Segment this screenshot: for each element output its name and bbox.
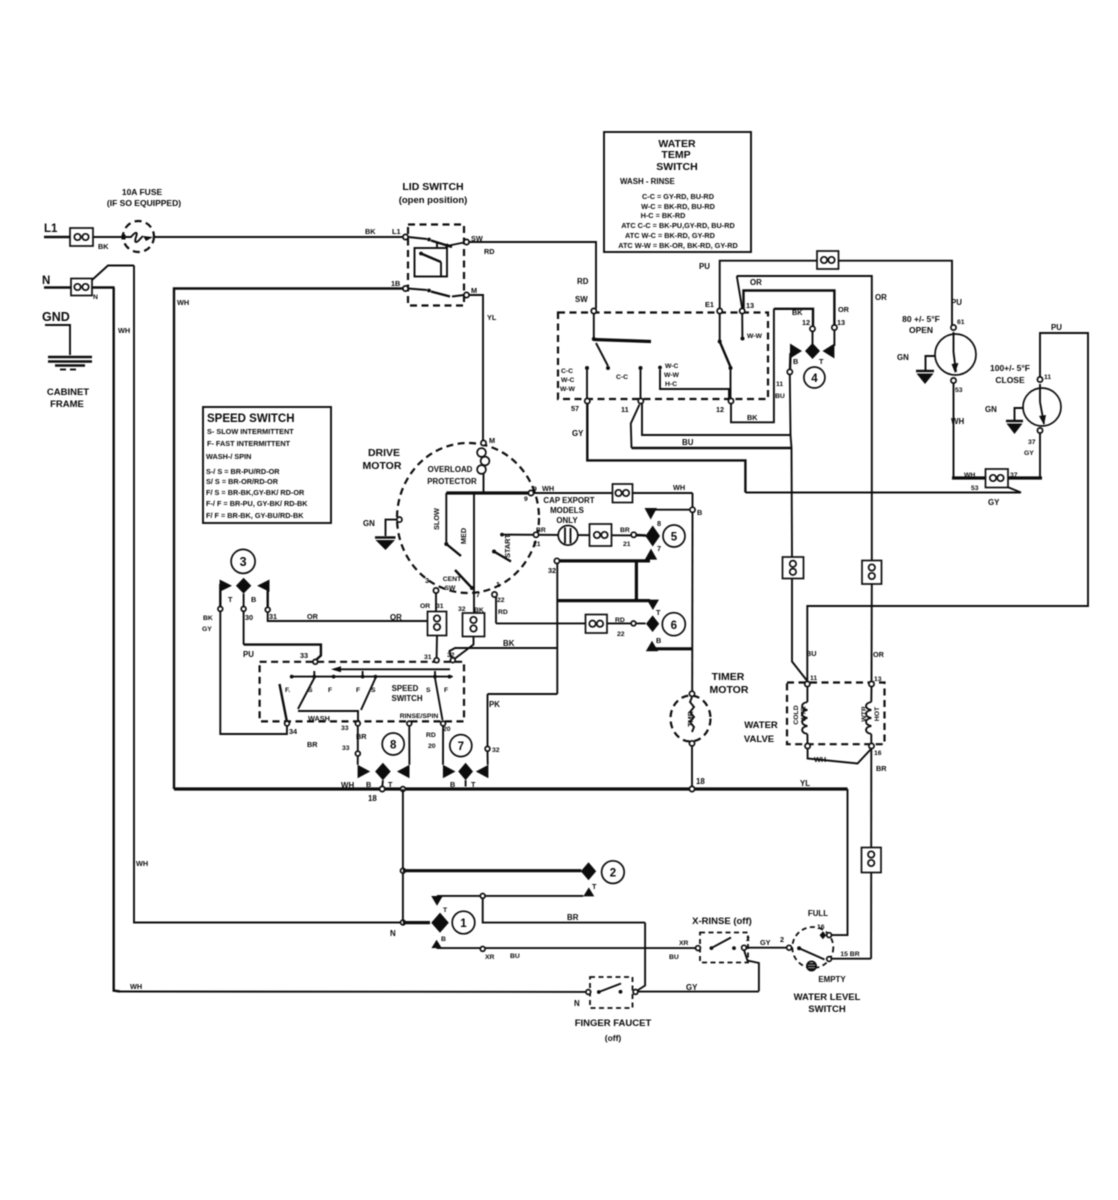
- svg-text:53: 53: [955, 387, 963, 394]
- svg-text:GY: GY: [988, 498, 1000, 507]
- x-rinse switch (dashed box): [700, 933, 748, 963]
- node 7 circle: [450, 735, 472, 757]
- svg-text:7: 7: [476, 590, 480, 599]
- svg-text:ATC C-C = BK-PU,GY-RD, BU-RD: ATC C-C = BK-PU,GY-RD, BU-RD: [621, 221, 735, 230]
- svg-text:9: 9: [524, 496, 528, 503]
- wire diag to terminal block: [1008, 487, 1022, 493]
- svg-text:C-C: C-C: [616, 374, 628, 381]
- terminal 1B of lid switch: [403, 286, 408, 291]
- svg-text:B: B: [656, 636, 661, 645]
- start tap dot: [500, 533, 504, 537]
- terminal 12 of wts: [728, 398, 733, 403]
- terminal block on PU run: [817, 251, 839, 269]
- svg-text:WH: WH: [118, 326, 130, 335]
- svg-text:T: T: [592, 882, 597, 891]
- node 2 diamond: [581, 862, 596, 880]
- wire to node8 B: [357, 756, 359, 765]
- node 8 stub: [381, 780, 384, 786]
- node 1 circle: [452, 911, 475, 934]
- svg-text:9: 9: [533, 486, 537, 493]
- terminal 33 bottom: [355, 721, 360, 726]
- wire GY from 57: [587, 404, 745, 493]
- wire WH 53-37 bus: [952, 476, 1042, 479]
- svg-text:31: 31: [424, 654, 432, 661]
- wire bus right leg to water level: [832, 789, 848, 935]
- node 8 arrow T: [397, 765, 410, 778]
- wire node6 T feed: [557, 599, 650, 602]
- wire L1 lead: [44, 236, 70, 238]
- svg-text:OR: OR: [838, 305, 850, 314]
- svg-text:PU: PU: [243, 650, 254, 659]
- node 2 arrow: [583, 887, 594, 896]
- wire WH bottom run: [120, 991, 586, 993]
- node 3 stubs: [220, 584, 267, 607]
- terminal block on cap run: [590, 524, 612, 546]
- terminal 11 of valve: [805, 681, 810, 686]
- wire XR BU run: [437, 947, 698, 949]
- cam direction arrow: [331, 666, 450, 672]
- svg-text:53: 53: [971, 485, 979, 492]
- wire H-C bracket to 12: [660, 370, 729, 399]
- terminal 11 of wts: [638, 398, 643, 403]
- wls empty icon: [807, 961, 816, 970]
- svg-text:C-C = GY-RD, BU-RD: C-C = GY-RD, BU-RD: [642, 192, 714, 201]
- svg-text:WH: WH: [177, 298, 189, 307]
- terminal OR-13: [832, 325, 837, 330]
- svg-text:W-W: W-W: [747, 333, 763, 340]
- svg-text:WATER LEVEL: WATER LEVEL: [794, 992, 861, 1003]
- svg-text:ATC W-W = BK-OR, BK-RD, GY-RD: ATC W-W = BK-OR, BK-RD, GY-RD: [618, 241, 738, 250]
- svg-text:31: 31: [436, 603, 444, 610]
- fuse F1 (10A, dashed): [122, 221, 155, 252]
- wire BR riser lower: [870, 873, 872, 959]
- svg-text:WATER: WATER: [744, 720, 778, 731]
- node 1 bottom arrow: [431, 940, 441, 948]
- svg-text:RD: RD: [484, 247, 495, 256]
- svg-text:37: 37: [1010, 472, 1018, 479]
- terminal block on OR riser: [862, 561, 882, 585]
- svg-text:RD: RD: [426, 732, 436, 739]
- svg-text:GND: GND: [42, 310, 70, 324]
- node 7 arrow B: [443, 765, 456, 778]
- terminal 61 of thermostat1: [951, 325, 956, 330]
- svg-text:ONLY: ONLY: [556, 516, 578, 525]
- wls wiper: [797, 946, 824, 959]
- motor med winding tap: [473, 493, 475, 613]
- wire GND lead: [45, 325, 70, 355]
- wire WH second riser: [134, 266, 403, 923]
- terminal faucet left: [586, 990, 591, 995]
- svg-text:(IF SO EQUIPPED): (IF SO EQUIPPED): [107, 198, 181, 208]
- node 1 top arrow: [431, 896, 443, 906]
- node 6 arrow T: [647, 600, 659, 610]
- terminal E1 of wts: [717, 308, 722, 313]
- svg-text:N: N: [574, 999, 580, 1008]
- svg-text:T: T: [656, 608, 661, 617]
- terminal 31: [265, 607, 270, 612]
- svg-text:WH: WH: [673, 483, 685, 492]
- node 4 diamond: [805, 343, 820, 359]
- svg-text:N: N: [42, 275, 50, 287]
- junction node1: [401, 920, 406, 925]
- svg-text:5: 5: [671, 532, 678, 544]
- wire RD22 run: [496, 622, 646, 624]
- svg-text:BU: BU: [669, 954, 679, 961]
- svg-text:20: 20: [443, 726, 451, 733]
- wire BU line A: [642, 404, 790, 436]
- ground thermostat1: [916, 371, 934, 384]
- svg-text:HOT: HOT: [874, 706, 881, 721]
- wire thermostat1 to bus: [953, 383, 955, 478]
- node 7 arrow T: [476, 765, 489, 778]
- svg-text:12: 12: [716, 405, 724, 414]
- terminal block WH 53/37: [986, 469, 1009, 488]
- svg-text:BK: BK: [792, 308, 803, 317]
- svg-text:2: 2: [610, 868, 616, 880]
- svg-text:W-W: W-W: [560, 386, 576, 393]
- svg-text:S- SLOW INTERMITTENT: S- SLOW INTERMITTENT: [207, 427, 294, 436]
- wire PU from E1: [720, 261, 817, 309]
- svg-text:TEMP: TEMP: [661, 149, 690, 161]
- svg-text:W-W: W-W: [664, 372, 680, 379]
- node 7 stub: [465, 780, 467, 786]
- svg-text:ATC W-C = BK-RD, GY-RD: ATC W-C = BK-RD, GY-RD: [625, 231, 715, 240]
- terminal 13 of valve: [869, 681, 874, 686]
- wire BK-12 to node4: [812, 331, 814, 345]
- junction node2: [401, 868, 406, 873]
- svg-text:MOTOR: MOTOR: [363, 460, 402, 472]
- terminal block L1: [70, 228, 93, 246]
- node 2 circle: [602, 861, 625, 884]
- terminal 37 of thermostat2: [1037, 428, 1042, 433]
- node 4 circle: [804, 367, 825, 388]
- svg-text:START: START: [503, 534, 512, 558]
- terminal 32 top: [450, 658, 455, 663]
- wire junction to node6 T: [635, 561, 638, 600]
- svg-text:CABINET: CABINET: [47, 387, 89, 398]
- svg-text:SPEED: SPEED: [392, 684, 419, 693]
- wire BR riser from valve 16: [870, 749, 872, 848]
- svg-text:BU: BU: [510, 953, 520, 960]
- svg-text:BK: BK: [365, 227, 376, 236]
- terminal 32 (node7): [485, 746, 490, 751]
- svg-text:(off): (off): [605, 1033, 622, 1043]
- wire L1 to fuse: [93, 236, 124, 238]
- node 6 arrow B: [646, 641, 658, 652]
- svg-text:13: 13: [746, 301, 754, 310]
- svg-text:OR: OR: [873, 650, 885, 659]
- terminal 11 of thermostat2: [1037, 377, 1042, 382]
- svg-text:BR: BR: [307, 740, 318, 749]
- svg-text:T: T: [819, 357, 824, 366]
- svg-text:1: 1: [460, 918, 467, 930]
- wire OR-13 to node4 T: [833, 330, 835, 346]
- svg-text:SPEED SWITCH: SPEED SWITCH: [207, 413, 295, 425]
- wire PU run to solenoid 1: [839, 261, 953, 325]
- terminal faucet right: [633, 990, 638, 995]
- wire PU run: [244, 645, 321, 660]
- faucet contacts: [597, 984, 623, 994]
- svg-text:OPEN: OPEN: [909, 325, 933, 335]
- wire x-rinse 2 down to GY: [744, 950, 759, 991]
- svg-text:WH: WH: [542, 484, 554, 493]
- wire PU lower loop (solenoid2 to valve 11): [807, 333, 1088, 681]
- svg-text:BU: BU: [806, 649, 817, 658]
- speed switch bus: [290, 676, 453, 678]
- svg-text:1: 1: [496, 580, 500, 589]
- svg-text:32: 32: [458, 606, 466, 613]
- capacitor C1: [558, 526, 578, 546]
- wire BR to finger faucet: [637, 923, 646, 991]
- svg-text:BR: BR: [620, 527, 630, 534]
- svg-text:M: M: [471, 286, 477, 295]
- wire 32 drop to node7: [487, 751, 489, 765]
- wts left pole wiper: [592, 314, 651, 342]
- svg-text:BK: BK: [503, 639, 515, 648]
- svg-text:4: 4: [811, 373, 818, 385]
- ground thermostat2: [1006, 421, 1023, 434]
- terminal 22: [631, 621, 636, 626]
- svg-text:M: M: [489, 436, 495, 445]
- wire motor internal bus: [446, 491, 531, 494]
- svg-text:18: 18: [696, 777, 705, 786]
- svg-text:XR: XR: [485, 954, 495, 961]
- solenoid 80F (thermostat 1): [935, 332, 976, 375]
- terminal 34: [285, 721, 290, 726]
- mid column contact dot: [658, 366, 662, 370]
- terminal 9 of motor: [528, 490, 533, 495]
- svg-text:11: 11: [810, 675, 817, 682]
- speed switch S3 (dashed box): [260, 662, 464, 722]
- svg-text:RD: RD: [498, 609, 508, 616]
- wire GY node3 to speed switch 34: [220, 611, 287, 734]
- svg-text:GN: GN: [985, 405, 997, 414]
- terminal 16 of wls: [827, 933, 832, 938]
- wire GY segment: [638, 991, 759, 993]
- svg-text:SW: SW: [445, 585, 457, 592]
- svg-text:VALVE: VALVE: [744, 734, 774, 745]
- terminal 30: [241, 607, 246, 612]
- lid switch middle contact: [419, 252, 441, 277]
- node 5 diamond: [645, 526, 660, 547]
- svg-text:N: N: [390, 929, 396, 938]
- svg-text:FULL: FULL: [808, 909, 828, 918]
- svg-text:21: 21: [533, 541, 541, 548]
- terminal 16 of valve: [869, 743, 874, 748]
- wire 32 block to speed switch 32: [455, 637, 474, 659]
- timer coil squiggle: [690, 697, 694, 732]
- wire WH corner riser: [692, 493, 694, 508]
- svg-text:CAP EXPORT: CAP EXPORT: [543, 496, 594, 505]
- svg-text:F: F: [328, 687, 332, 694]
- terminal timer top: [689, 691, 694, 696]
- wire 57 drop inside wts: [586, 370, 588, 399]
- svg-text:X-RINSE (off): X-RINSE (off): [692, 916, 752, 927]
- svg-text:7: 7: [657, 544, 661, 553]
- svg-text:13: 13: [837, 318, 845, 327]
- terminal 20: [441, 721, 446, 726]
- SPEED SWITCH legend box: [203, 407, 331, 523]
- svg-text:F- FAST INTERMITTENT: F- FAST INTERMITTENT: [207, 439, 291, 448]
- svg-text:3: 3: [240, 555, 247, 569]
- svg-text:2: 2: [780, 935, 784, 944]
- svg-text:11: 11: [621, 405, 629, 414]
- svg-text:32: 32: [492, 747, 500, 754]
- svg-text:DRIVE: DRIVE: [368, 447, 400, 459]
- wire 32 run to node5: [557, 559, 650, 562]
- wire node6 B to riser: [652, 647, 693, 650]
- svg-text:BK: BK: [747, 413, 758, 422]
- wire WH left riser: [114, 288, 120, 992]
- terminal L1 of lid switch: [403, 234, 408, 239]
- svg-text:WH: WH: [951, 417, 964, 426]
- svg-text:BU: BU: [682, 438, 694, 447]
- svg-text:GN: GN: [897, 353, 909, 362]
- svg-text:W-C: W-C: [665, 363, 679, 370]
- wire riser B to timer: [691, 512, 693, 691]
- svg-text:31: 31: [269, 612, 277, 621]
- node 6 diamond: [646, 615, 659, 632]
- svg-text:OR: OR: [307, 612, 319, 621]
- svg-text:WH: WH: [341, 781, 354, 790]
- svg-text:F-/ F = BR-PU, GY-BK/ RD-BK: F-/ F = BR-PU, GY-BK/ RD-BK: [206, 499, 308, 508]
- svg-text:MED: MED: [459, 528, 468, 544]
- node 3 arrow B: [257, 580, 269, 592]
- svg-text:BK: BK: [203, 615, 213, 622]
- terminal XR of x-rinse: [696, 946, 701, 951]
- svg-text:BU: BU: [775, 393, 785, 400]
- svg-text:S: S: [426, 687, 431, 694]
- node 5 circle: [663, 525, 685, 547]
- svg-text:PK: PK: [489, 700, 500, 709]
- node 3 arrow T: [220, 580, 232, 592]
- svg-text:PU: PU: [699, 262, 710, 271]
- svg-text:8: 8: [390, 740, 397, 752]
- svg-text:SWITCH: SWITCH: [656, 161, 697, 173]
- motor start contact: [492, 550, 511, 562]
- node 6 circle: [662, 613, 685, 636]
- svg-text:2: 2: [746, 936, 750, 943]
- svg-text:RD: RD: [577, 277, 589, 286]
- drive motor M1 (dashed circle): [397, 443, 539, 593]
- ground motor: [375, 538, 396, 551]
- wire SW to water temp switch: [469, 242, 596, 309]
- switch blade rinse: [435, 678, 443, 720]
- lid switch inner frame: [415, 248, 448, 277]
- svg-text:MOTOR: MOTOR: [710, 684, 749, 696]
- wire N diagonal jumper: [92, 266, 134, 281]
- svg-text:SLOW: SLOW: [432, 508, 441, 530]
- wire 20 drop to node7: [442, 726, 444, 765]
- svg-text:YL: YL: [800, 779, 810, 788]
- svg-text:32: 32: [548, 566, 556, 575]
- wire BK jog: [450, 648, 558, 658]
- overload protector coil: [477, 448, 489, 493]
- svg-text:16: 16: [817, 924, 825, 931]
- svg-text:32: 32: [447, 652, 455, 659]
- wire main lower bus: [174, 787, 848, 790]
- terminal 3 of motor: [433, 588, 438, 593]
- terminal XR: [480, 947, 485, 952]
- terminal empty of wls: [827, 957, 832, 962]
- wire BR drop: [483, 898, 645, 922]
- motor GN terminal: [386, 517, 403, 536]
- svg-text:FINGER FAUCET: FINGER FAUCET: [575, 1018, 652, 1029]
- svg-text:GY: GY: [202, 626, 212, 633]
- node 8 circle: [382, 733, 404, 755]
- wire WH jumper valve: [808, 749, 872, 764]
- svg-text:WASH: WASH: [308, 714, 330, 723]
- wire motor 1 to RD22: [495, 597, 497, 623]
- svg-text:57: 57: [571, 404, 579, 413]
- terminal B: [690, 507, 695, 512]
- water valve (dashed box): [787, 683, 885, 745]
- svg-text:B: B: [793, 357, 798, 366]
- svg-text:12: 12: [802, 318, 810, 327]
- switch blade wash2: [361, 678, 376, 710]
- solenoid 100F (thermostat 2): [1023, 384, 1061, 426]
- terminal 57 of wts: [585, 398, 590, 403]
- terminal SW of lid switch: [464, 239, 469, 244]
- svg-text:T: T: [228, 595, 233, 604]
- finger faucet switch (dashed box): [590, 977, 633, 1008]
- svg-text:WTR: WTR: [861, 706, 868, 722]
- node 4 arrow T: [823, 344, 835, 359]
- WATER TEMP SWITCH legend box: [604, 132, 751, 252]
- svg-text:3: 3: [425, 576, 429, 585]
- node 7 diamond: [458, 763, 473, 780]
- wire PK drop: [487, 694, 489, 746]
- svg-text:F/ F = BR-BK, GY-BU/RD-BK: F/ F = BR-BK, GY-BU/RD-BK: [206, 511, 304, 520]
- svg-text:C-C: C-C: [561, 368, 573, 375]
- wls full contact diamond: [820, 931, 827, 939]
- wire N to left riser: [92, 286, 115, 288]
- terminal mid bottom: [407, 721, 412, 726]
- svg-text:21: 21: [623, 541, 631, 548]
- wire 31 to OR run: [268, 612, 428, 621]
- bus contacts: [290, 671, 452, 678]
- svg-text:EMPTY: EMPTY: [818, 975, 846, 984]
- svg-text:F: F: [444, 687, 448, 694]
- wire 32 riser down: [556, 564, 558, 695]
- wts W-W contact: [741, 314, 745, 341]
- junction on bus: [401, 787, 406, 792]
- terminal 18 on bus: [380, 786, 385, 791]
- svg-text:SW: SW: [575, 295, 588, 304]
- wire x-rinse to water level: [746, 947, 786, 949]
- svg-text:FRAME: FRAME: [50, 399, 84, 410]
- svg-text:W-C: W-C: [561, 377, 575, 384]
- svg-text:15 BR: 15 BR: [840, 951, 859, 958]
- svg-text:N: N: [93, 294, 98, 301]
- terminal valve bottom left: [805, 743, 810, 748]
- wire timer to bus: [691, 746, 693, 787]
- cold valve coil: [802, 687, 807, 744]
- wire OR riser to valve 13: [871, 584, 873, 681]
- cent switch blade: [455, 570, 474, 590]
- lid switch upper pole: [408, 237, 464, 248]
- svg-text:GY: GY: [686, 983, 698, 992]
- node 8 diamond: [375, 763, 391, 780]
- terminal block on BR riser: [862, 848, 882, 873]
- svg-text:22: 22: [617, 631, 625, 638]
- svg-text:RINSE/SPIN: RINSE/SPIN: [400, 713, 439, 720]
- svg-text:OVERLOAD: OVERLOAD: [428, 465, 473, 474]
- terminal 2 of x-rinse: [742, 945, 747, 950]
- svg-text:10A FUSE: 10A FUSE: [122, 187, 163, 197]
- wire GY long run: [745, 492, 1021, 494]
- wire L1 bus to lid switch: [154, 236, 403, 238]
